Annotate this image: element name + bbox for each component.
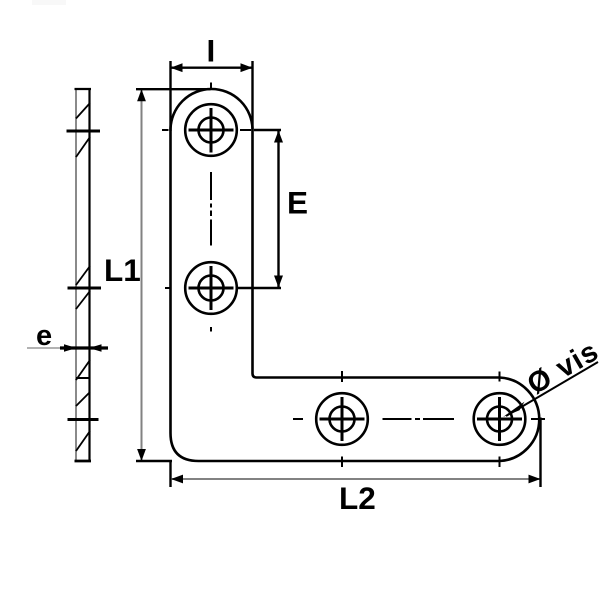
svg-text:E: E: [287, 185, 308, 221]
svg-text:L1: L1: [104, 252, 141, 288]
svg-text:e: e: [36, 320, 52, 352]
svg-text:L2: L2: [339, 480, 376, 516]
svg-text:I: I: [207, 33, 216, 69]
